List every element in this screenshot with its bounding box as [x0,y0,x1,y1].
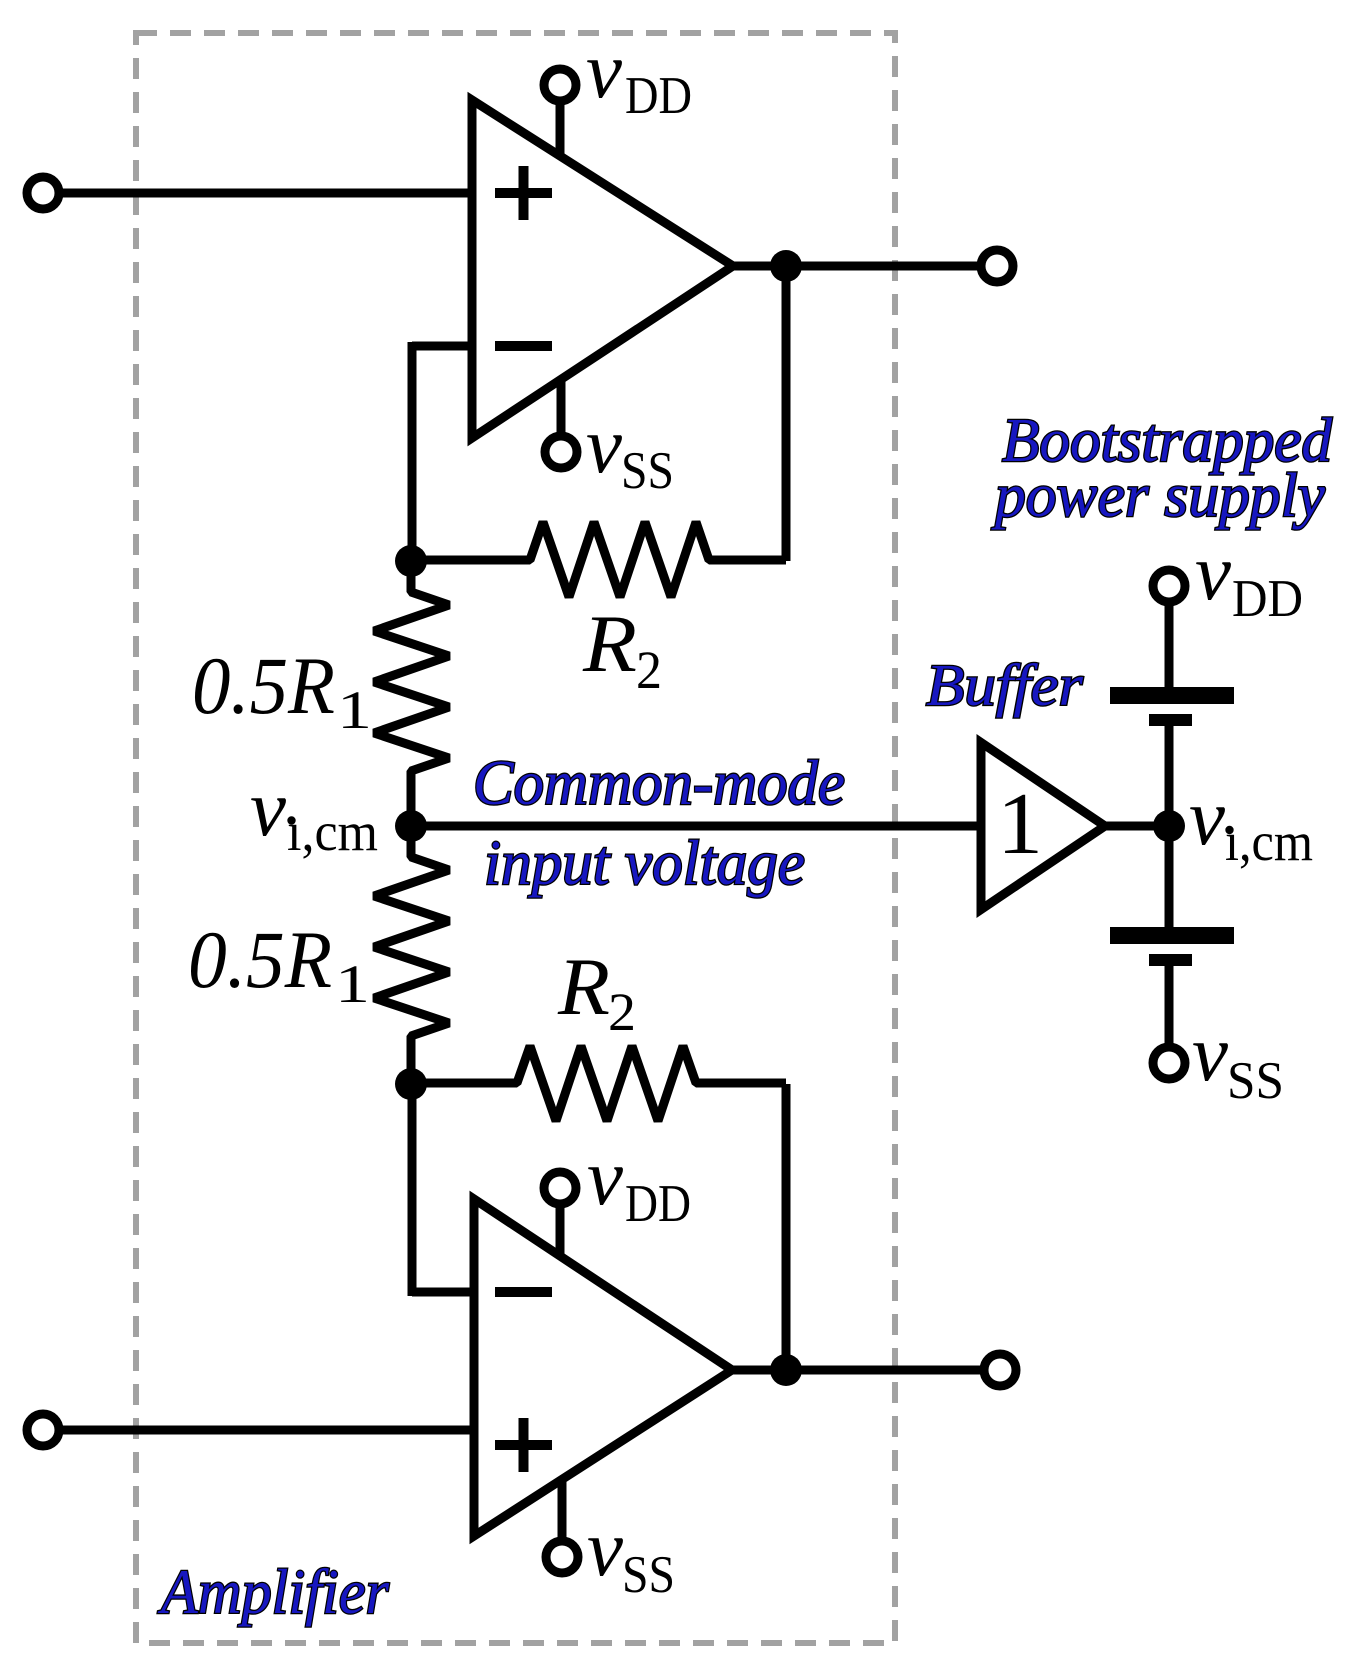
svg-text:Buffer: Buffer [926,652,1084,718]
wire: bottom op-amp VSS stub [558,1475,567,1541]
node vi,cm (buffer output) [1153,810,1185,842]
label vSS (bootstrapped) [1192,1008,1284,1110]
wire: bottom R2 to output vertical [782,1084,791,1370]
battery B2 short plate [1149,954,1192,966]
svg-text:SS: SS [622,1546,675,1604]
svg-text:v: v [587,1503,623,1593]
op-amp U2 (bottom) [474,1199,732,1536]
svg-text:0.5R: 0.5R [192,640,335,731]
label vDD (bottom op-amp) [587,1132,691,1233]
node: bottom output junction [770,1354,802,1386]
wire: top op-amp output [733,262,997,271]
svg-text:R: R [557,941,610,1032]
wire: common-mode node to buffer [411,822,981,831]
wire: bottom feedback vertical [408,1084,417,1296]
label 0.5R1 (upper) [192,640,372,740]
wire: node to battery B2 [1165,826,1174,930]
svg-text:R: R [582,598,637,689]
resistor R2 (bottom feedback) [411,1046,786,1121]
wire: top inverting input horizontal [412,342,472,351]
U2 minus input symbol [495,1287,552,1297]
svg-text:DD: DD [625,1175,691,1233]
svg-text:DD: DD [625,67,692,125]
label vDD (bootstrapped) [1195,527,1303,628]
svg-text:1: 1 [997,776,1043,873]
svg-text:SS: SS [621,442,674,500]
label 0.5R1 (lower) [188,914,370,1014]
wire: bottom op-amp output [732,1366,998,1375]
svg-text:Amplifier: Amplifier [157,1556,390,1627]
svg-text:v: v [250,763,286,853]
wire: top op-amp VSS stub [557,373,566,436]
svg-text:input voltage: input voltage [484,827,805,898]
U1 plus input symbol [495,166,552,220]
battery B2 long plate [1110,927,1234,944]
label vi,cm (left) [250,763,378,862]
battery B1 long plate [1110,687,1234,704]
U2 plus input symbol [495,1418,552,1472]
terminal: bootstrapped vSS [1153,1047,1185,1079]
svg-text:2: 2 [608,982,636,1042]
label: Common-mode input voltage [473,747,845,898]
node: bottom feedback junction [395,1068,427,1100]
svg-text:v: v [586,25,622,115]
label vDD (top op-amp) [586,25,692,125]
wire: bottom non-inverting input [43,1426,474,1435]
svg-text:1: 1 [337,680,372,740]
op-amp U1 (top) [472,100,733,438]
wire: top op-amp VDD stub [556,101,565,165]
resistor 0.5R1 (upper) [374,561,449,826]
terminal: top op-amp vDD [544,69,576,101]
node: top output junction [770,250,802,282]
svg-text:power supply: power supply [991,462,1325,530]
terminal: bottom op-amp vDD [544,1172,576,1204]
terminal: top output [981,250,1013,282]
wire: battery B2 to vSS [1165,966,1174,1047]
svg-text:1: 1 [335,954,370,1014]
label R2 (top) [582,598,662,700]
label R2 (bottom) [557,941,636,1042]
terminal: bootstrapped vDD [1153,570,1185,602]
svg-text:v: v [1195,527,1231,617]
svg-text:v: v [586,400,622,490]
terminal: bottom op-amp vSS [546,1541,578,1573]
terminal: bottom output [984,1354,1016,1386]
svg-text:DD: DD [1232,570,1303,628]
wire: top output feedback vertical [782,266,791,561]
svg-text:ı,cm: ı,cm [1225,811,1313,872]
svg-text:0.5R: 0.5R [188,914,332,1005]
wire: top inverting feedback vertical [408,342,417,561]
resistor 0.5R1 (lower) [374,826,449,1084]
svg-text:ı,cm: ı,cm [287,801,378,862]
terminal: top input [27,177,59,209]
wire: top non-inverting input [43,189,472,198]
label vSS (top op-amp) [586,400,674,500]
wire: bottom op-amp VDD stub [556,1204,565,1262]
wire: battery B1 to node [1165,726,1174,826]
resistor R2 (top feedback) [411,522,786,597]
node: top feedback junction [395,545,427,577]
svg-text:v: v [1192,1008,1228,1098]
svg-text:SS: SS [1227,1052,1284,1110]
label vSS (bottom op-amp) [587,1503,675,1604]
U1 minus input symbol [495,341,552,351]
label vi,cm (right) [1189,772,1313,872]
battery B1 short plate [1149,714,1192,726]
wire: vDD to battery B1 [1165,602,1174,690]
terminal: top op-amp vSS [545,436,577,468]
terminal: bottom input [27,1414,59,1446]
label: Bootstrapped power supply [991,407,1333,530]
amplifier dashed boundary box [136,33,895,1643]
wire: buffer output [1105,822,1169,831]
svg-text:2: 2 [636,640,662,700]
node vi,cm (divider midpoint) [395,810,427,842]
svg-text:v: v [587,1132,623,1222]
buffer U3 (unity gain) [981,743,1105,910]
svg-text:v: v [1189,772,1225,862]
wire: bottom inverting input horizontal [412,1288,474,1297]
svg-text:Common-mode: Common-mode [473,747,845,818]
